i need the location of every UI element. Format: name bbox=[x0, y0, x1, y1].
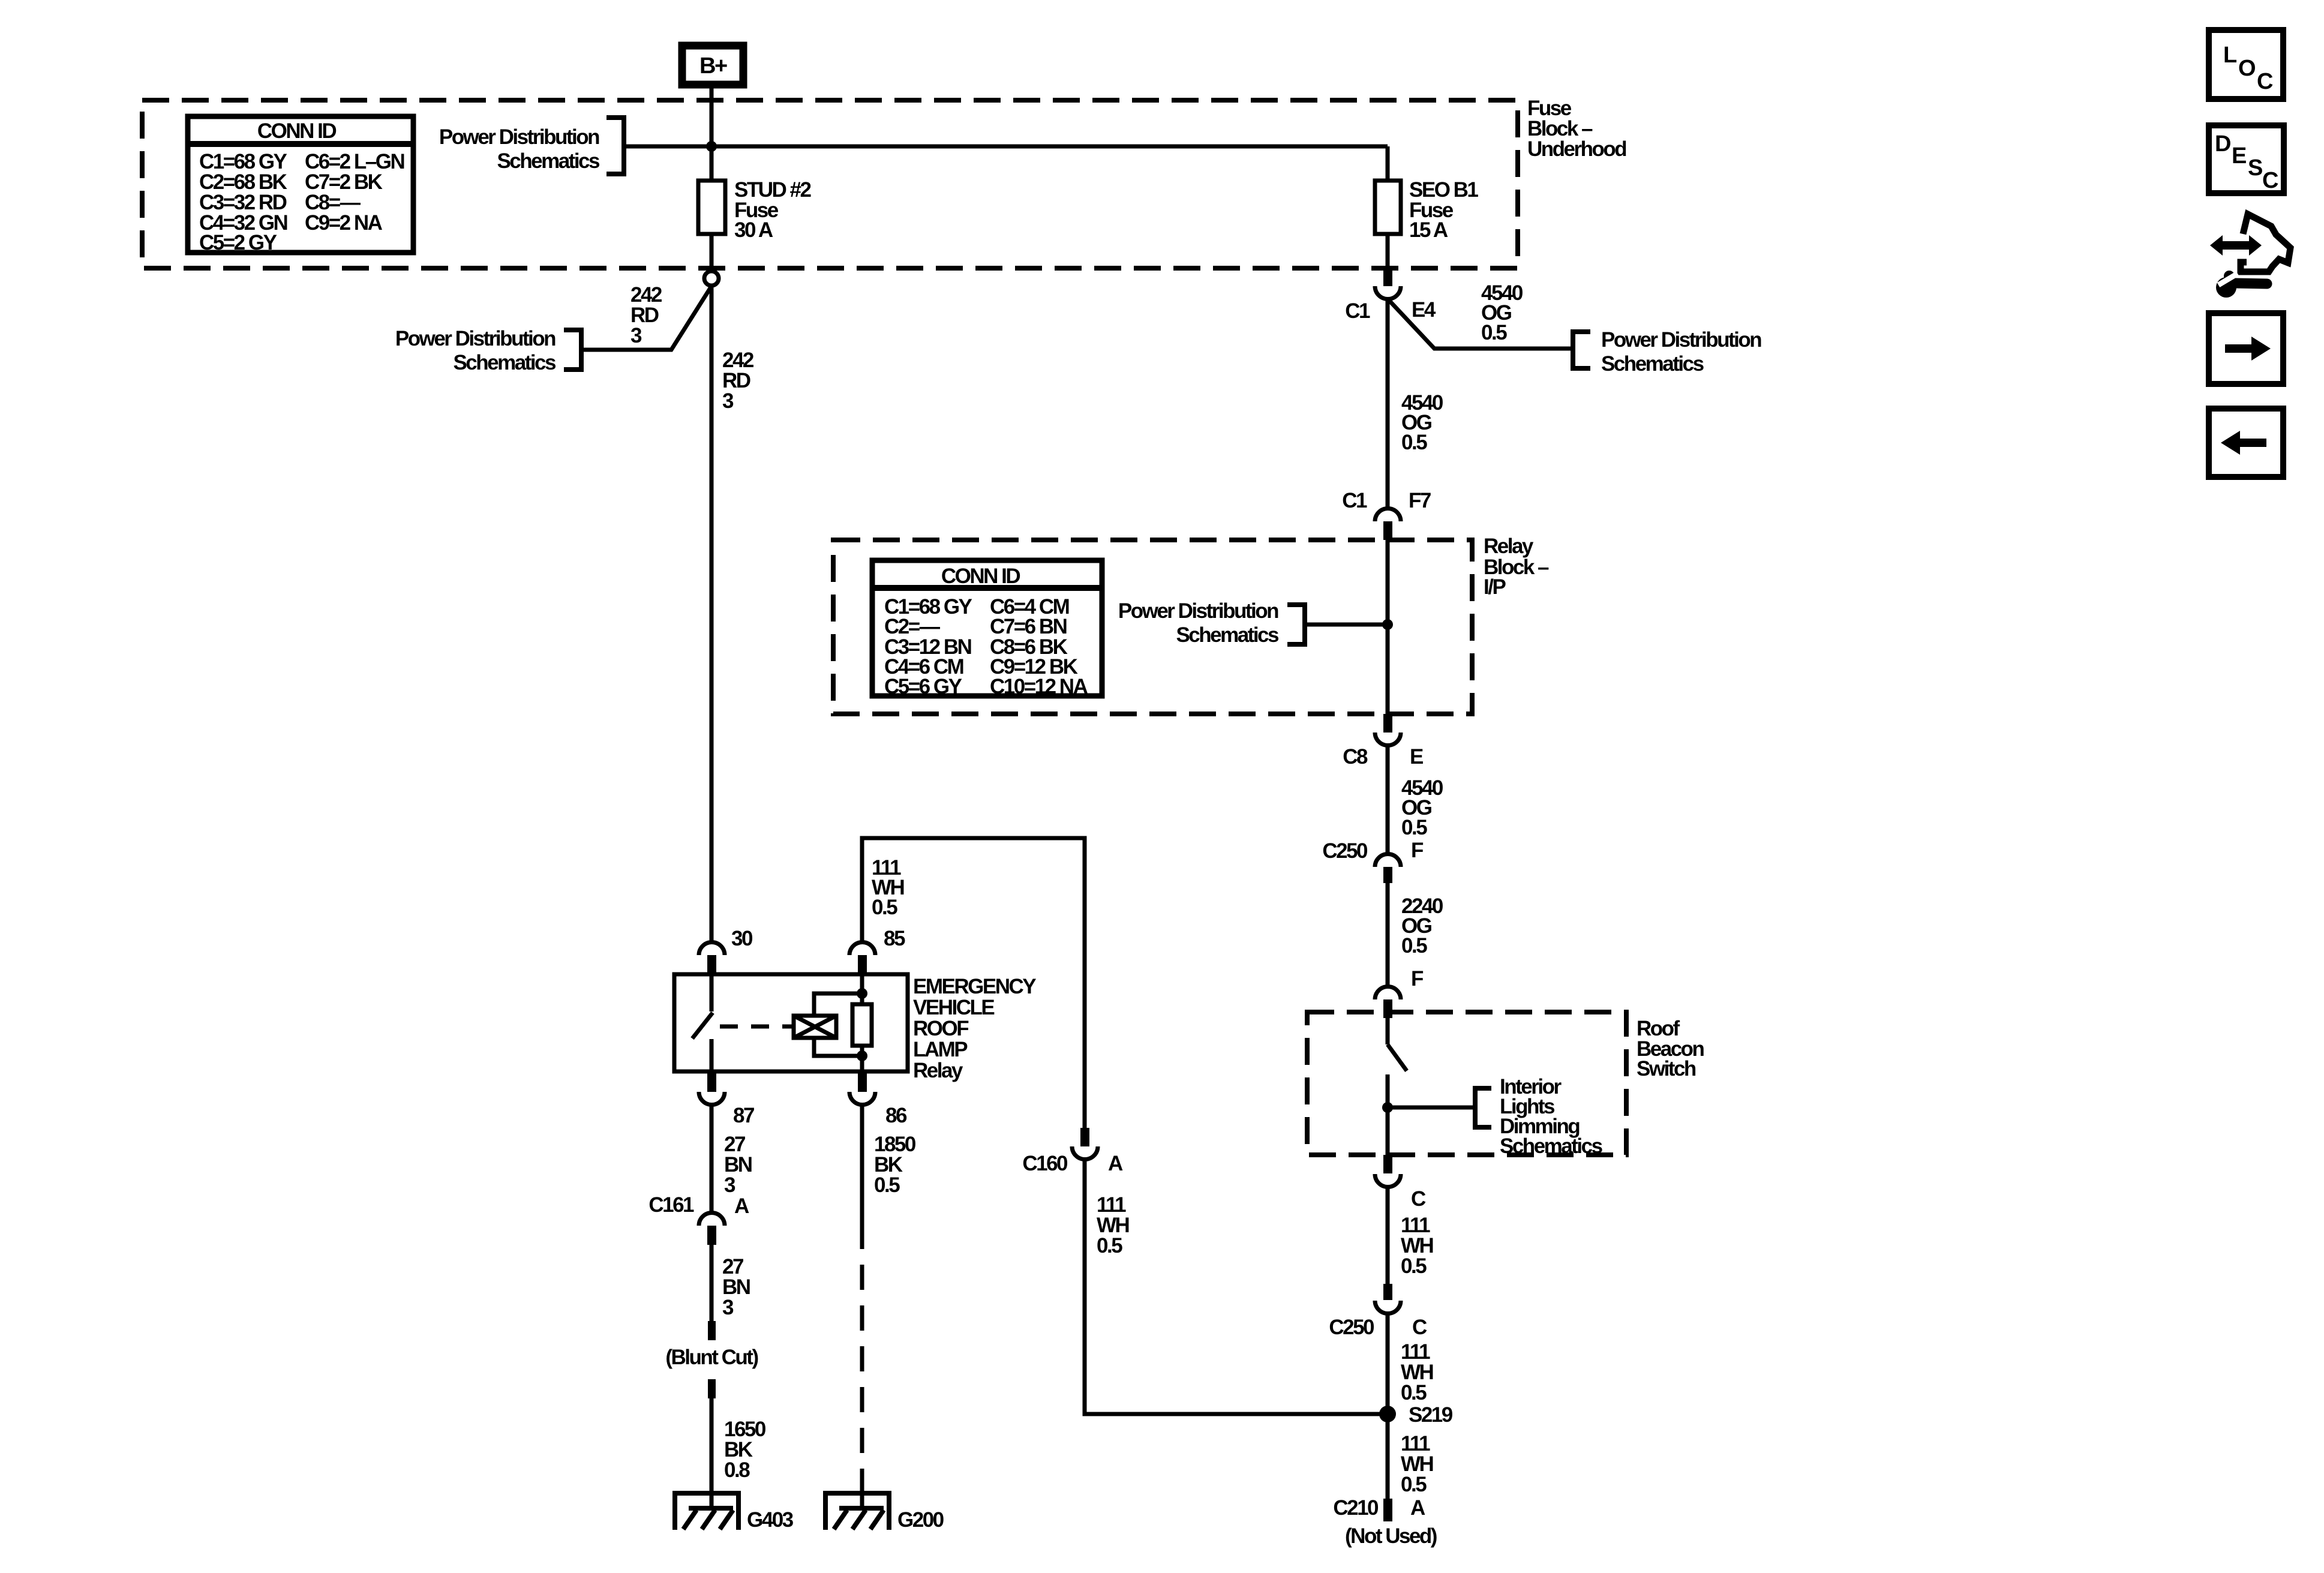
wire 4540 OG 0.5 bbox=[1386, 299, 1390, 508]
splice S219 bbox=[1379, 1403, 1453, 1427]
svg-text:C: C bbox=[1412, 1316, 1427, 1339]
svg-text:C161: C161 bbox=[648, 1193, 694, 1217]
pin 85 connector bbox=[849, 927, 905, 975]
label Relay Block I/P bbox=[1484, 535, 1549, 599]
svg-text:Schematics: Schematics bbox=[1176, 623, 1279, 647]
label 1850 BK 0.5 bbox=[874, 1133, 916, 1197]
svg-text:C250: C250 bbox=[1329, 1316, 1374, 1339]
svg-text:F7: F7 bbox=[1409, 489, 1431, 512]
svg-text:Schematics: Schematics bbox=[1601, 352, 1704, 376]
svg-text:G200: G200 bbox=[897, 1508, 944, 1532]
svg-text:C1: C1 bbox=[1342, 489, 1367, 512]
svg-text:LAMP: LAMP bbox=[913, 1038, 968, 1061]
svg-text:C8: C8 bbox=[1343, 745, 1368, 769]
fuse block underhood box bbox=[142, 100, 1518, 268]
label Power Distribution Schematics (right of E4) bbox=[1573, 328, 1761, 376]
icon DESC box bbox=[2209, 125, 2284, 193]
svg-text:Schematics: Schematics bbox=[1500, 1134, 1603, 1158]
relay coil circuit bbox=[814, 975, 872, 1071]
svg-text:C1: C1 bbox=[1345, 299, 1370, 323]
svg-text:A: A bbox=[1108, 1152, 1123, 1175]
fuse STUD #2 bbox=[698, 178, 811, 242]
svg-text:0.5: 0.5 bbox=[1401, 1381, 1427, 1404]
ground G403 bbox=[672, 1493, 794, 1532]
ring terminal bbox=[704, 271, 719, 286]
svg-text:(Blunt Cut): (Blunt Cut) bbox=[665, 1346, 758, 1369]
wire bus from bracket to SEO B1 bbox=[624, 145, 1388, 149]
svg-text:I/P: I/P bbox=[1484, 575, 1506, 599]
svg-text:0.5: 0.5 bbox=[1401, 816, 1427, 839]
label 111 WH 0.5 (by pin 85) bbox=[872, 856, 904, 919]
icon arrow right box bbox=[2209, 313, 2283, 384]
svg-text:3: 3 bbox=[722, 1296, 734, 1319]
svg-text:A: A bbox=[1410, 1496, 1425, 1520]
wire tap to ring terminal bbox=[581, 286, 711, 350]
svg-text:Schematics: Schematics bbox=[453, 351, 556, 374]
label 242 RD 3 (upper) bbox=[630, 283, 662, 347]
wire B+ to STUD #2 fuse bbox=[710, 88, 714, 181]
relay switch blade bbox=[692, 975, 794, 1071]
label 242 RD 3 (lower) bbox=[722, 349, 754, 413]
svg-text:30 A: 30 A bbox=[734, 218, 773, 242]
svg-text:(Not Used): (Not Used) bbox=[1345, 1524, 1437, 1548]
connector C1 E4 bbox=[1345, 268, 1436, 323]
label 2240 OG 0.5 bbox=[1401, 894, 1443, 957]
svg-text:3: 3 bbox=[722, 389, 734, 413]
label 4540 OG 0.5 (third) bbox=[1401, 776, 1443, 839]
label EMERGENCY VEHICLE ROOF LAMP Relay bbox=[913, 975, 1036, 1082]
svg-text:0.5: 0.5 bbox=[1481, 321, 1507, 344]
svg-text:A: A bbox=[734, 1194, 749, 1218]
connector F (roof beacon switch input) bbox=[1375, 967, 1424, 1018]
label Power Distribution Schematics (relay block) bbox=[1118, 599, 1393, 647]
svg-text:Relay: Relay bbox=[1484, 535, 1534, 558]
svg-text:0.5: 0.5 bbox=[1097, 1234, 1122, 1257]
connector C8 E bbox=[1343, 714, 1423, 769]
relay block I/P box bbox=[833, 540, 1472, 714]
wire 111 WH 0.5 (below roof switch) bbox=[1386, 1187, 1390, 1284]
svg-text:C5=2 GY: C5=2 GY bbox=[199, 231, 277, 254]
wire 27 BN 3 (below C161) bbox=[710, 1245, 714, 1321]
svg-text:S: S bbox=[2248, 155, 2262, 181]
pin 86 connector bbox=[849, 1071, 907, 1127]
svg-text:ROOF: ROOF bbox=[913, 1017, 969, 1040]
wire 242 RD 3 (left vertical) bbox=[710, 286, 714, 941]
icon diagnostic tool bbox=[2210, 214, 2290, 298]
svg-text:D: D bbox=[2215, 131, 2230, 157]
svg-text:E: E bbox=[2232, 143, 2246, 169]
wire 1650 BK 0.8 bbox=[710, 1398, 714, 1493]
svg-text:C: C bbox=[2262, 168, 2278, 193]
label Fuse Block Underhood bbox=[1527, 97, 1626, 161]
connector C250 C bbox=[1329, 1284, 1427, 1339]
svg-text:15 A: 15 A bbox=[1409, 218, 1448, 242]
svg-text:C10=12 NA: C10=12 NA bbox=[990, 675, 1088, 698]
svg-text:VEHICLE: VEHICLE bbox=[913, 996, 994, 1019]
svg-text:F: F bbox=[1411, 839, 1424, 862]
svg-text:L: L bbox=[2223, 43, 2237, 68]
label Interior Lights Dimming Schematics bbox=[1382, 1075, 1603, 1158]
svg-text:C: C bbox=[2257, 69, 2273, 94]
svg-text:S219: S219 bbox=[1409, 1403, 1453, 1427]
connector C161 A bbox=[648, 1193, 749, 1245]
label Power Distribution Schematics (mid left) bbox=[395, 327, 581, 374]
relay actuator crossed box bbox=[794, 1016, 836, 1038]
connector C1 F7 bbox=[1342, 489, 1431, 540]
svg-text:0.5: 0.5 bbox=[874, 1173, 900, 1197]
svg-text:F: F bbox=[1411, 967, 1424, 990]
svg-text:C: C bbox=[1411, 1187, 1426, 1211]
svg-text:EMERGENCY: EMERGENCY bbox=[913, 975, 1036, 998]
svg-text:E4: E4 bbox=[1412, 298, 1436, 322]
svg-text:Schematics: Schematics bbox=[497, 149, 600, 173]
wire STUD #2 fuse to ring terminal bbox=[710, 234, 714, 271]
battery feed B+ bbox=[682, 46, 743, 85]
label 111 WH 0.5 bbox=[1401, 1340, 1433, 1404]
CONN ID table (fuse block) bbox=[188, 116, 413, 254]
relay EMERGENCY VEHICLE ROOF LAMP box bbox=[674, 974, 908, 1071]
svg-text:0.5: 0.5 bbox=[1401, 1473, 1427, 1496]
label 111 WH 0.5 bbox=[1401, 1214, 1433, 1278]
pin 87 connector bbox=[699, 1071, 754, 1127]
svg-text:G403: G403 bbox=[747, 1508, 794, 1532]
roof beacon switch box bbox=[1307, 1012, 1626, 1155]
switch (roof beacon) bbox=[1388, 1018, 1407, 1155]
wire 111 WH 0.5 (pin 85 feed to C160) bbox=[862, 838, 1085, 1128]
svg-text:30: 30 bbox=[731, 927, 753, 950]
icon LOC box bbox=[2209, 30, 2283, 99]
svg-text:85: 85 bbox=[884, 927, 905, 950]
ground G200 bbox=[823, 1493, 944, 1532]
label 1650 BK 0.8 bbox=[724, 1418, 766, 1482]
svg-text:3: 3 bbox=[630, 324, 642, 347]
fuse SEO B1 bbox=[1375, 146, 1478, 269]
label Power Distribution Schematics (top) bbox=[439, 118, 624, 174]
wire 27 BN 3 (pin 87 down) bbox=[710, 1105, 714, 1212]
svg-text:3: 3 bbox=[724, 1173, 735, 1197]
junction dot bbox=[706, 141, 717, 152]
label 27 BN 3 bbox=[722, 1255, 750, 1319]
svg-text:Power Distribution: Power Distribution bbox=[1118, 599, 1278, 623]
svg-text:C160: C160 bbox=[1022, 1152, 1068, 1175]
blunt cut wire break bbox=[665, 1321, 758, 1398]
wire 2240 OG 0.5 bbox=[1386, 883, 1390, 986]
svg-text:87: 87 bbox=[733, 1104, 754, 1127]
label 4540 OG 0.5 (second) bbox=[1401, 391, 1443, 454]
connector C160 A bbox=[1022, 1128, 1123, 1175]
label 111 WH 0.5 (below C160) bbox=[1097, 1193, 1129, 1257]
CONN ID table (relay block) bbox=[872, 560, 1102, 698]
svg-text:0.5: 0.5 bbox=[872, 896, 897, 919]
svg-text:CONN ID: CONN ID bbox=[941, 565, 1020, 588]
svg-text:Switch: Switch bbox=[1637, 1057, 1696, 1080]
svg-text:O: O bbox=[2238, 56, 2255, 81]
svg-text:0.5: 0.5 bbox=[1401, 934, 1427, 957]
wire 111 WH 0.5 (to C210) bbox=[1386, 1414, 1390, 1499]
svg-text:0.8: 0.8 bbox=[724, 1458, 750, 1482]
svg-text:B+: B+ bbox=[699, 53, 727, 79]
connector C (roof beacon output) bbox=[1375, 1155, 1426, 1211]
label 27 BN 3 bbox=[724, 1133, 752, 1197]
wire through relay block bbox=[1386, 539, 1390, 714]
connector C250 F bbox=[1322, 839, 1424, 883]
label Roof Beacon Switch bbox=[1637, 1017, 1704, 1080]
wire E4 tap to Power Distribution bbox=[1388, 299, 1572, 349]
label 4540 OG 0.5 (top) bbox=[1481, 281, 1523, 344]
svg-text:86: 86 bbox=[885, 1104, 907, 1127]
svg-text:Power Distribution: Power Distribution bbox=[395, 327, 556, 350]
wire 4540 OG 0.5 (to C250) bbox=[1386, 746, 1390, 853]
wire 1850 BK 0.5 (pin 86 down, partly open) bbox=[860, 1105, 864, 1493]
wire 111 WH 0.5 (C160 to S219) bbox=[1085, 1160, 1388, 1414]
pin 30 connector bbox=[699, 927, 753, 975]
svg-text:Power Distribution: Power Distribution bbox=[439, 125, 599, 149]
svg-text:0.5: 0.5 bbox=[1401, 1254, 1427, 1278]
svg-text:Power Distribution: Power Distribution bbox=[1601, 328, 1761, 352]
svg-text:CONN ID: CONN ID bbox=[257, 119, 337, 143]
svg-text:C250: C250 bbox=[1322, 839, 1368, 863]
label 111 WH 0.5 bbox=[1401, 1432, 1433, 1496]
svg-text:0.5: 0.5 bbox=[1401, 431, 1427, 454]
svg-text:C5=6 GY: C5=6 GY bbox=[884, 675, 962, 698]
svg-text:Relay: Relay bbox=[913, 1059, 963, 1082]
svg-text:Underhood: Underhood bbox=[1527, 137, 1626, 161]
wire 111 WH 0.5 (to S219) bbox=[1386, 1314, 1390, 1414]
svg-text:C210: C210 bbox=[1333, 1496, 1379, 1520]
connector C210 A (Not Used) bbox=[1333, 1496, 1436, 1548]
icon arrow left box bbox=[2209, 409, 2283, 477]
svg-text:C9=2 NA: C9=2 NA bbox=[305, 211, 383, 235]
svg-text:E: E bbox=[1410, 745, 1423, 769]
